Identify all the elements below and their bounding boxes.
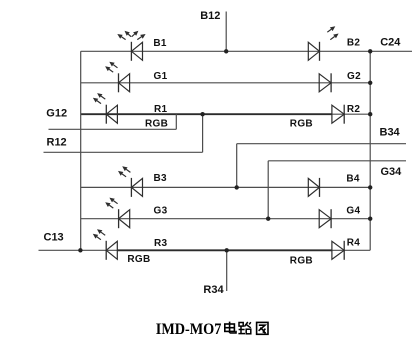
- svg-text:B2: B2: [347, 38, 361, 49]
- svg-text:G12: G12: [46, 107, 67, 119]
- svg-text:IMD-MO7: IMD-MO7: [156, 321, 222, 338]
- svg-text:G4: G4: [346, 205, 360, 216]
- svg-text:R34: R34: [203, 284, 224, 296]
- svg-text:RGB: RGB: [290, 118, 313, 129]
- svg-text:G2: G2: [347, 71, 361, 82]
- svg-text:RGB: RGB: [145, 119, 168, 130]
- svg-text:RGB: RGB: [290, 255, 313, 266]
- svg-text:B4: B4: [346, 173, 360, 184]
- svg-text:R1: R1: [154, 104, 168, 115]
- svg-text:C24: C24: [380, 37, 401, 49]
- svg-text:B1: B1: [153, 38, 167, 49]
- svg-text:G34: G34: [381, 166, 403, 178]
- svg-text:C13: C13: [44, 231, 64, 243]
- svg-text:R2: R2: [347, 104, 361, 115]
- svg-text:G3: G3: [154, 206, 168, 217]
- svg-text:RGB: RGB: [127, 254, 150, 265]
- svg-text:R12: R12: [47, 137, 67, 149]
- svg-text:B3: B3: [154, 173, 168, 184]
- svg-text:G1: G1: [154, 71, 168, 82]
- svg-text:B34: B34: [380, 127, 401, 139]
- svg-text:R3: R3: [154, 238, 168, 249]
- svg-text:B12: B12: [200, 10, 220, 22]
- svg-text:R4: R4: [347, 237, 361, 248]
